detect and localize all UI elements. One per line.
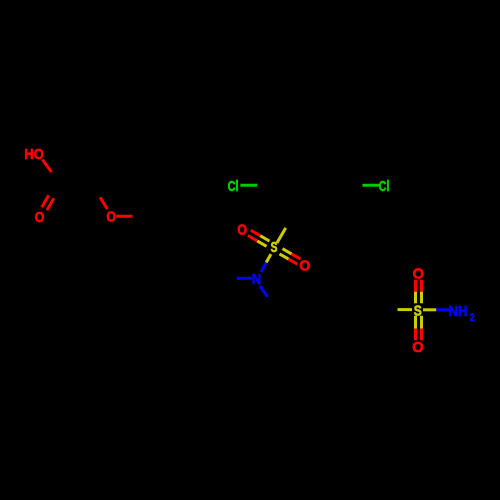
svg-text:O: O xyxy=(412,339,424,356)
svg-text:HO: HO xyxy=(24,146,44,163)
wire S=O top double bond left line xyxy=(414,292,417,304)
wire N-CH3 blue half xyxy=(237,277,252,280)
svg-text:O: O xyxy=(299,258,310,275)
wire C1=O double bond red halves xyxy=(47,198,54,210)
wire O-C3 ether red half xyxy=(116,215,132,218)
wire S=O upper-left double bond line a xyxy=(260,236,269,241)
wire S=O top double bond right line xyxy=(420,292,423,304)
svg-text:O: O xyxy=(106,208,116,225)
wire S=O lower-right double bond line a xyxy=(280,254,289,259)
svg-text:2: 2 xyxy=(470,312,475,324)
wire Cl-C ring green half xyxy=(240,184,257,187)
svg-text:N: N xyxy=(252,271,261,288)
svg-text:NH: NH xyxy=(449,303,468,320)
wire S-C ring yellow half xyxy=(277,228,286,243)
wire S=O lower-right double bond line b xyxy=(283,249,292,254)
wire C ring-Cl green half xyxy=(362,184,379,187)
wire S-N right blue half xyxy=(436,308,449,311)
wire C-S right sulfonamide yellow half xyxy=(398,308,413,311)
wire S=O bottom double bond left line xyxy=(414,316,417,329)
svg-text:Cl: Cl xyxy=(228,178,239,195)
wire S-N yellow half xyxy=(266,254,271,262)
wire O(H)-C1 red half xyxy=(42,160,51,173)
wire C2-O ether red half xyxy=(100,197,107,209)
wire N-CH2 blue half xyxy=(260,286,268,297)
svg-text:Cl: Cl xyxy=(379,178,390,195)
wire S-N blue half xyxy=(261,263,266,273)
svg-text:O: O xyxy=(35,209,45,226)
wire S=O upper-left double bond line b xyxy=(257,241,266,246)
svg-text:O: O xyxy=(237,222,247,239)
wire S=O bottom double bond right line xyxy=(420,316,423,329)
wire S-N right yellow half xyxy=(423,308,436,311)
